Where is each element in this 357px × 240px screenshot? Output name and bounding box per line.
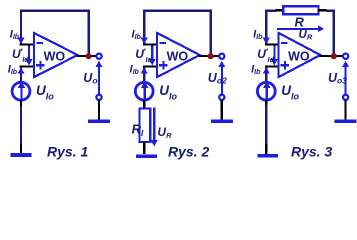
voltage arrow U_o at output [98, 66, 100, 96]
wire: source to resistor R_I (black) [143, 100, 145, 109]
terminal: lower ring [219, 95, 224, 100]
voltage source U_Io (circle with arrow) [257, 82, 275, 100]
op-amp non-inverting pin mark + [36, 64, 44, 66]
op-amp WO (triangle) [34, 33, 78, 77]
op-amp non-inverting pin mark + [159, 64, 167, 66]
wire: resistor R right lead (black) [318, 9, 327, 11]
voltage arrow U_o3 at output [345, 66, 347, 96]
current arrow I_Ib into non-inverting input [263, 67, 270, 73]
ground (source side) [257, 154, 278, 158]
svg-text:WO: WO [44, 50, 66, 64]
current arrow I_Ib into non-inverting input [141, 67, 148, 73]
op-amp inverting pin mark - [281, 42, 288, 44]
terminal: lower ring [343, 95, 348, 100]
svg-text:WO: WO [167, 50, 189, 64]
ground (source side) [11, 153, 32, 157]
voltage source U_Io (circle with arrow) [135, 82, 153, 100]
resistor R (feedback) [283, 6, 318, 14]
voltage arrow U'_Id between op-amp inputs [151, 46, 153, 61]
wire: non-inverting input to source U_Io [20, 67, 22, 83]
wire: op-amp output to terminal (black) [199, 55, 221, 57]
wire: lower terminal to ground (black) [221, 100, 223, 119]
voltage arrow U_o2 at output [221, 66, 223, 96]
wire: op-amp output to terminal (black) [319, 55, 344, 57]
wire: source to ground (navy segment) [265, 105, 267, 145]
wire: op-amp output to terminal (black) [77, 55, 98, 57]
wire: ground stub (black) [20, 144, 22, 154]
svg-text:WO: WO [288, 50, 310, 64]
ground (output side) [335, 119, 357, 123]
wire: ground stub (black) [265, 144, 267, 154]
svg-text:Rys. 1: Rys. 1 [47, 143, 88, 159]
node: output junction (dot) [331, 53, 337, 59]
current arrow I_Ib into inverting input [17, 38, 24, 44]
op-amp inverting pin mark - [159, 42, 166, 44]
svg-text:R: R [295, 14, 305, 29]
op-amp WO (triangle) [279, 33, 321, 77]
ground (output side) [211, 119, 233, 123]
voltage source U_Io (circle with arrow) [12, 82, 30, 100]
wire: resistor to ground (black) [143, 142, 145, 154]
wire: feedback loop from output node to inverting input (Rys. 1) [21, 11, 89, 54]
ground (source side) [136, 154, 157, 158]
voltage arrow U_R across R_I [153, 108, 155, 141]
wire: inverting input stub (black) [265, 43, 280, 45]
wire: non-inverting input stub (black) [265, 65, 280, 67]
terminal: output (upper ring) [219, 54, 224, 59]
svg-text:Rys. 2: Rys. 2 [168, 143, 209, 159]
ground (output side) [88, 119, 110, 123]
terminal: lower ring [96, 95, 101, 100]
wire: non-inverting input to source U_Io [265, 67, 267, 83]
node: output junction (dot) [86, 53, 92, 59]
wire: non-inverting input stub (black) [143, 65, 158, 67]
wire: source to ground (navy segment) [20, 107, 22, 144]
wire: source to ground (black stub) [265, 100, 267, 104]
resistor R_I [140, 109, 151, 142]
svg-text:Rys. 3: Rys. 3 [291, 143, 332, 159]
op-amp non-inverting pin mark + [281, 64, 289, 66]
op-amp WO (triangle) [157, 33, 200, 77]
wire: source to ground (black stub) [20, 100, 22, 106]
wire: lower terminal to ground (black) [98, 100, 100, 119]
wire: non-inverting input to source U_Io [143, 67, 145, 83]
op-amp inverting pin mark - [36, 42, 43, 44]
voltage arrow U'_Id between op-amp inputs [28, 46, 30, 61]
voltage arrow U'_Id between op-amp inputs [273, 46, 275, 61]
wire: inverting input stub (black) [20, 43, 36, 45]
terminal: output (upper ring) [96, 54, 101, 59]
wire: inverting input stub (black) [143, 43, 158, 45]
node: output junction (dot) [208, 53, 214, 59]
wire: feedback loop left segment to inverting input (Rys. 3) [266, 11, 276, 44]
wire: feedback loop from output node to inverting input (Rys. 2) [144, 11, 210, 54]
wire: non-inverting input stub (black) [20, 65, 36, 67]
voltage arrow U_R across feedback resistor [277, 28, 319, 30]
current arrow I_Ib into non-inverting input [17, 67, 24, 73]
wire: feedback loop right segment down to output node [326, 11, 334, 54]
wire: resistor R left lead (black) [276, 9, 285, 11]
current arrow I_Ib into inverting input [141, 38, 148, 44]
current arrow I_Ib into inverting input [263, 38, 270, 44]
terminal: output (upper ring) [343, 54, 348, 59]
wire: lower terminal to ground (black) [345, 100, 347, 119]
